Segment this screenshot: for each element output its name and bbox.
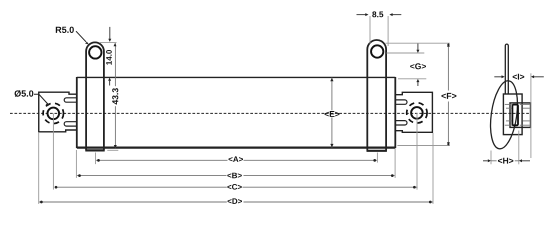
label C xyxy=(227,184,241,190)
dim 8.5 ext lines xyxy=(369,16,371,44)
centerline xyxy=(10,112,531,114)
right lug hole xyxy=(371,45,383,57)
end view ellipse xyxy=(487,79,522,150)
label I xyxy=(513,74,525,80)
end view hidden line row2 xyxy=(506,107,512,109)
dim 8.5 arrows xyxy=(357,14,366,16)
dim 43.3 line xyxy=(114,43,116,86)
dim I arrows xyxy=(494,76,502,78)
label B xyxy=(227,173,241,179)
leader R5.0 xyxy=(76,31,86,42)
dim F bottom ext xyxy=(397,145,450,147)
left bracket plate xyxy=(39,92,77,132)
label 8.5 xyxy=(372,11,383,17)
label 14.0 xyxy=(106,50,112,65)
right bracket tab lower xyxy=(395,121,407,125)
dim G ext lug hole xyxy=(387,52,425,54)
left bracket tab upper xyxy=(64,98,77,102)
right bracket hole xyxy=(411,107,423,119)
label 43.3 xyxy=(112,88,118,104)
dim 14.0 upper arrow xyxy=(109,27,111,39)
end view lug bar xyxy=(505,44,508,93)
dim F line xyxy=(447,43,449,90)
label dia5.0 xyxy=(15,90,34,97)
right lug strap xyxy=(367,40,387,151)
end view hidden line row3 xyxy=(506,120,512,122)
dim B line xyxy=(77,175,227,177)
dim H arrows xyxy=(483,160,488,162)
end view foot rect xyxy=(510,103,531,128)
dim 14.0 ext line xyxy=(99,42,117,44)
dim C line xyxy=(55,186,227,188)
left lug hole xyxy=(89,46,101,58)
left lug strap xyxy=(85,42,104,150)
dim C ext lines xyxy=(52,113,54,189)
dim A ext lines xyxy=(95,153,97,165)
label G xyxy=(410,63,426,69)
right bracket plate xyxy=(395,92,432,132)
right bracket tab upper xyxy=(395,100,407,104)
cylinder body xyxy=(77,77,396,148)
dim G lower arrow xyxy=(416,79,419,82)
end view inner slot xyxy=(512,105,518,126)
label F xyxy=(441,93,456,99)
leader dia 5.0 xyxy=(34,94,49,105)
right bracket hole dashed circle xyxy=(407,103,427,123)
label E xyxy=(325,111,340,117)
label D xyxy=(228,198,242,204)
dim 43.3 bottom ext xyxy=(107,149,118,151)
left bracket hole xyxy=(48,108,60,120)
end view bracket rect xyxy=(503,94,522,135)
dim H left ext xyxy=(490,151,492,165)
dim D ext lines xyxy=(38,133,40,204)
left bracket tab lower xyxy=(64,122,77,126)
label R5.0 xyxy=(56,27,74,33)
dim I right ext xyxy=(530,73,532,158)
label H xyxy=(498,158,513,164)
end view hidden line row1 xyxy=(505,103,512,105)
dim B ext lines xyxy=(75,150,77,178)
dim D line xyxy=(39,201,227,203)
end view hidden line row4 xyxy=(505,124,512,126)
dim G ext cyl top xyxy=(398,78,426,80)
dim 14.0 lower arrow xyxy=(108,78,111,81)
label A xyxy=(229,156,243,162)
dim G upper arrow xyxy=(417,43,419,50)
dim H right ext xyxy=(518,131,520,165)
dim E line xyxy=(331,78,333,111)
dim A line xyxy=(96,159,228,161)
left bracket hole dashed circle xyxy=(43,103,63,123)
dim F top ext xyxy=(386,42,450,44)
